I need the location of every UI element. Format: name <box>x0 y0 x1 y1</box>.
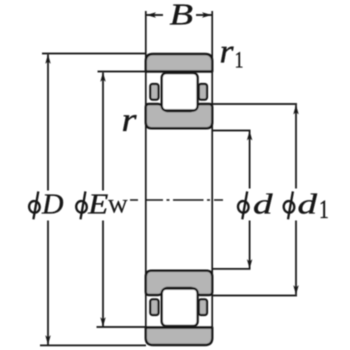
dimension line phiD vertical <box>47 55 49 191</box>
extension line phiEw bottom <box>97 326 147 328</box>
cage tab right (upper section) <box>199 84 207 100</box>
label phid <box>237 191 249 219</box>
arrow phiEw up <box>100 72 105 82</box>
lower bearing section (mirror about y=199.5) <box>146 271 212 345</box>
inner ring with ribs (upper section, bottom) <box>146 104 212 128</box>
dimension line phid1 vertical <box>295 105 297 189</box>
upper bearing section <box>146 54 212 128</box>
outer ring (lower section, bottom) <box>146 328 212 346</box>
extension line phid top (bore, upper) <box>213 130 251 132</box>
label phiEw <box>75 191 87 219</box>
svg-text:d: d <box>253 189 273 221</box>
svg-text:d: d <box>298 189 318 221</box>
label phid1 <box>283 191 295 219</box>
svg-text:W: W <box>108 197 127 218</box>
arrow phid down <box>247 259 252 269</box>
roller (lower section, white) <box>162 289 198 327</box>
outer ring (upper section, top) <box>146 54 212 72</box>
dimension B: horizontal line at top <box>146 14 163 16</box>
arrow phiD down <box>45 335 50 345</box>
cage tab left (upper section) <box>150 84 158 100</box>
arrow phiEw down <box>100 317 105 327</box>
roller (upper section, white) <box>162 73 198 111</box>
arrow phid1 down <box>293 285 298 295</box>
cage tab left (lower section) <box>150 299 158 315</box>
extension line phid1 bottom (rib diameter, lower) <box>213 295 297 297</box>
arrow right of B <box>202 12 212 17</box>
arrow phid1 up <box>293 105 298 115</box>
arrow phid up <box>247 131 252 141</box>
extension line phid1 top (rib diameter, upper) <box>213 103 297 105</box>
svg-text:r: r <box>122 102 138 139</box>
label phiD <box>28 191 40 219</box>
dimension line phiEw vertical <box>102 73 104 191</box>
centerline (shaft axis, dash-dot) <box>130 199 223 201</box>
extension line phiD bottom <box>40 344 146 346</box>
extension line phid bottom (bore, lower) <box>213 268 251 270</box>
svg-text:D: D <box>41 189 64 221</box>
svg-text:B: B <box>170 0 194 32</box>
wire: left side extension line (bearing left edge, B tick, full height) <box>145 11 147 340</box>
arrow phiD up <box>45 54 50 64</box>
wire: right side extension line (bearing right edge, B tick, full height) <box>211 11 213 340</box>
svg-text:E: E <box>87 189 108 221</box>
svg-text:r: r <box>220 34 235 71</box>
dimension line phid vertical <box>249 131 251 189</box>
inner ring with ribs (lower section, top) <box>146 271 212 295</box>
svg-text:1: 1 <box>235 48 244 73</box>
extension line phiEw top <box>98 71 147 73</box>
svg-text:1: 1 <box>319 195 329 224</box>
arrow left of B <box>146 12 156 17</box>
cage tab right (lower section) <box>199 299 207 315</box>
extension line phiD top <box>42 53 146 55</box>
